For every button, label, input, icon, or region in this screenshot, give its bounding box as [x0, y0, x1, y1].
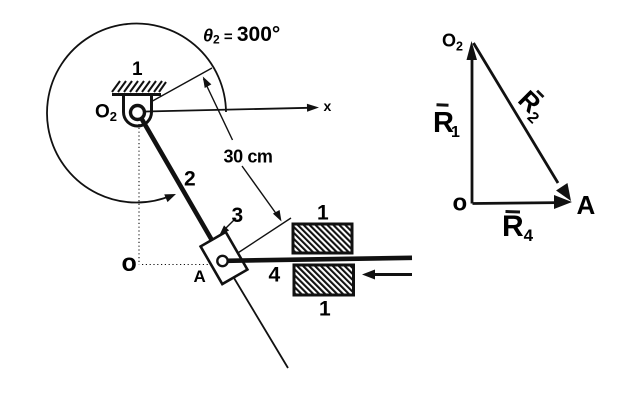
svg-text:3: 3 [232, 204, 244, 227]
svg-text:1: 1 [317, 202, 329, 225]
svg-text:o: o [122, 249, 137, 277]
svg-text:x: x [324, 98, 332, 114]
svg-text:30 cm: 30 cm [224, 147, 273, 167]
svg-text:o: o [453, 190, 468, 217]
svg-text:1: 1 [132, 59, 143, 80]
svg-text:A: A [577, 190, 596, 220]
svg-text:4: 4 [269, 264, 281, 287]
svg-text:A: A [194, 267, 206, 286]
svg-text:2: 2 [184, 168, 196, 191]
svg-text:1: 1 [319, 298, 331, 321]
